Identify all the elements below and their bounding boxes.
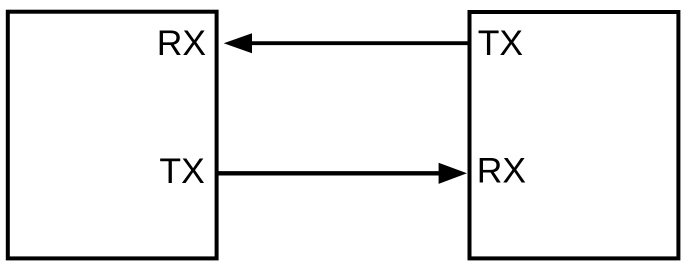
device box right (U2) xyxy=(470,12,679,258)
arrowhead pointing left xyxy=(224,33,252,53)
svg-text:TX: TX xyxy=(478,23,523,63)
svg-text:RX: RX xyxy=(157,23,206,63)
arrowhead pointing right xyxy=(439,163,467,184)
device box left (U1) xyxy=(8,12,217,259)
wire TX(left) to RX(right) xyxy=(217,171,441,175)
svg-text:RX: RX xyxy=(477,150,526,190)
svg-text:TX: TX xyxy=(159,151,204,191)
wire TX(right) to RX(left) xyxy=(250,41,470,45)
